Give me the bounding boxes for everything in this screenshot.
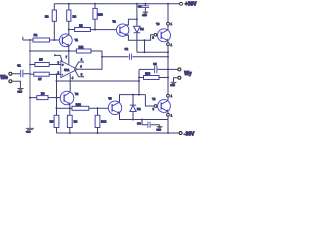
wire T6 base jog — [145, 95, 154, 106]
node junction -input feedback — [56, 73, 58, 75]
resistor R14 — [97, 108, 99, 115]
wire opamp pin8 stub — [55, 55, 62, 61]
wire T2 emitter jog — [127, 35, 154, 41]
node pin circle collector T3 — [167, 22, 170, 25]
transistor T4 — [60, 91, 74, 105]
wire +30V to T3 collector — [167, 4, 169, 23]
wire We minus to ground — [12, 81, 21, 88]
svg-text:1: 1 — [171, 116, 173, 118]
svg-text:-: - — [62, 73, 63, 76]
diode D2 — [132, 95, 134, 120]
svg-text:R13: R13 — [145, 71, 150, 75]
svg-text:US1: US1 — [64, 68, 70, 72]
node pin circle T6 emitter — [167, 112, 169, 114]
svg-text:R14: R14 — [101, 120, 106, 124]
svg-text:GND: GND — [142, 15, 147, 17]
svg-text:R11: R11 — [79, 45, 84, 49]
svg-text:C1: C1 — [17, 64, 21, 68]
wire T2 collector to D1 line — [127, 19, 137, 25]
resistor R7 — [34, 72, 49, 76]
wire D1 bottom to output rail — [137, 51, 168, 53]
svg-text:3: 3 — [58, 61, 60, 64]
node junction R10/R9 — [94, 29, 96, 31]
resistor R1 — [23, 37, 60, 40]
resistor R10 — [94, 4, 96, 9]
terminal +30V — [180, 2, 183, 5]
svg-text:We: We — [0, 75, 8, 81]
svg-text:R9: R9 — [79, 23, 83, 27]
resistor R8 — [30, 97, 37, 99]
svg-text:R10: R10 — [98, 12, 103, 16]
wire output rail vertical — [167, 46, 169, 95]
svg-text:R7: R7 — [38, 77, 42, 81]
svg-text:2: 2 — [153, 109, 155, 111]
ground under C6 — [143, 12, 149, 13]
wire left bus — [29, 40, 31, 128]
node pin circle T3 base — [154, 33, 157, 36]
svg-text:+: + — [62, 64, 64, 67]
svg-text:GND: GND — [17, 91, 22, 93]
transistor T5 — [108, 101, 121, 114]
node junction R4/R9 — [68, 29, 70, 31]
wire T4 emitter — [69, 104, 71, 115]
ground input — [18, 89, 24, 90]
transistor T1 — [59, 34, 72, 47]
svg-text:D1: D1 — [140, 27, 144, 31]
svg-text:T2: T2 — [113, 19, 117, 23]
svg-text:GND: GND — [170, 85, 175, 87]
wire Wy row — [139, 68, 178, 70]
terminal Wy — [178, 68, 181, 71]
capacitor C3 — [155, 66, 157, 74]
resistor R13 — [139, 77, 144, 79]
svg-text:T1: T1 — [75, 38, 79, 42]
wire T5 collector row — [120, 95, 146, 103]
svg-text:5: 5 — [81, 73, 83, 76]
resistor R9 — [69, 29, 75, 31]
svg-text:-30V: -30V — [184, 131, 195, 137]
svg-text:2: 2 — [152, 38, 154, 40]
wire bottom -30V rail — [57, 132, 180, 134]
node junction dots on top rail — [68, 3, 169, 5]
svg-text:1: 1 — [171, 45, 173, 47]
ground under C4 — [157, 127, 163, 128]
node pin circle T6 collector — [167, 94, 170, 97]
op-amp US1 — [61, 61, 78, 78]
wire opamp offset pin lower — [75, 69, 83, 77]
svg-text:T4: T4 — [75, 92, 79, 96]
svg-text:R6: R6 — [74, 120, 78, 124]
wire opamp offset pin upper — [75, 62, 83, 69]
svg-text:1: 1 — [171, 24, 173, 26]
svg-text:Wy: Wy — [184, 71, 192, 77]
svg-text:R2: R2 — [45, 14, 49, 18]
wire Wy drop to T5 collector row — [138, 69, 140, 94]
wire opamp +input — [49, 64, 61, 66]
wire opamp -input — [49, 73, 61, 75]
capacitor C2 — [102, 56, 168, 58]
svg-text:R4: R4 — [73, 14, 77, 18]
transistor T6 — [158, 100, 171, 113]
wire top +30V rail — [54, 3, 179, 5]
resistor R11 — [76, 49, 91, 53]
transistor T3 — [158, 29, 171, 42]
svg-text:C4: C4 — [137, 121, 141, 125]
capacitor C1 — [12, 73, 30, 75]
svg-text:7: 7 — [66, 56, 68, 59]
diode D1 — [136, 4, 138, 52]
resistor R5 — [35, 63, 49, 67]
svg-text:R3: R3 — [50, 120, 54, 124]
node pin circle T6 base — [154, 105, 157, 108]
capacitor C6 — [144, 4, 146, 12]
svg-text:4: 4 — [72, 77, 74, 80]
svg-text:GND: GND — [156, 129, 161, 131]
svg-text:6: 6 — [80, 66, 82, 69]
node junction R2/R1 — [53, 39, 55, 41]
node pin circle T3 emitter — [167, 41, 169, 43]
ground left bus — [26, 128, 34, 129]
wire T1 emitter — [68, 46, 70, 65]
transistor T2 — [117, 24, 129, 36]
svg-text:T5: T5 — [108, 96, 112, 100]
resistor R6 — [67, 115, 72, 127]
svg-text:R1: R1 — [34, 33, 38, 37]
svg-text:R5: R5 — [39, 58, 43, 62]
capacitor C4 — [142, 120, 160, 127]
svg-text:1: 1 — [171, 96, 173, 98]
svg-text:T6: T6 — [152, 97, 156, 101]
terminal We plus — [9, 72, 12, 75]
wire feedback row — [30, 50, 76, 52]
resistor R2 — [53, 4, 55, 10]
svg-text:GND: GND — [26, 131, 31, 133]
svg-text:C2: C2 — [125, 47, 129, 51]
svg-text:1: 1 — [81, 59, 83, 62]
wire inverting input bus — [56, 74, 58, 115]
wire T5 emitter row — [120, 113, 169, 119]
wire feedback return row — [57, 80, 140, 82]
resistor R4 — [68, 4, 70, 10]
terminal We minus — [9, 80, 12, 83]
svg-text:R12: R12 — [76, 102, 81, 106]
svg-text:R8: R8 — [41, 92, 45, 96]
ground output — [171, 82, 177, 83]
resistor R12 — [57, 107, 73, 109]
wire Wy return to ground — [174, 78, 178, 82]
svg-text:T3: T3 — [156, 22, 160, 26]
svg-text:C3: C3 — [153, 62, 157, 66]
terminal -30V — [179, 132, 182, 135]
resistor R3 — [54, 115, 59, 127]
svg-text:D2: D2 — [137, 107, 141, 111]
wire opamp V- pin — [69, 74, 71, 92]
svg-text:C6: C6 — [138, 4, 142, 8]
terminal Wy return — [178, 76, 181, 79]
svg-text:+30V: +30V — [185, 2, 197, 8]
